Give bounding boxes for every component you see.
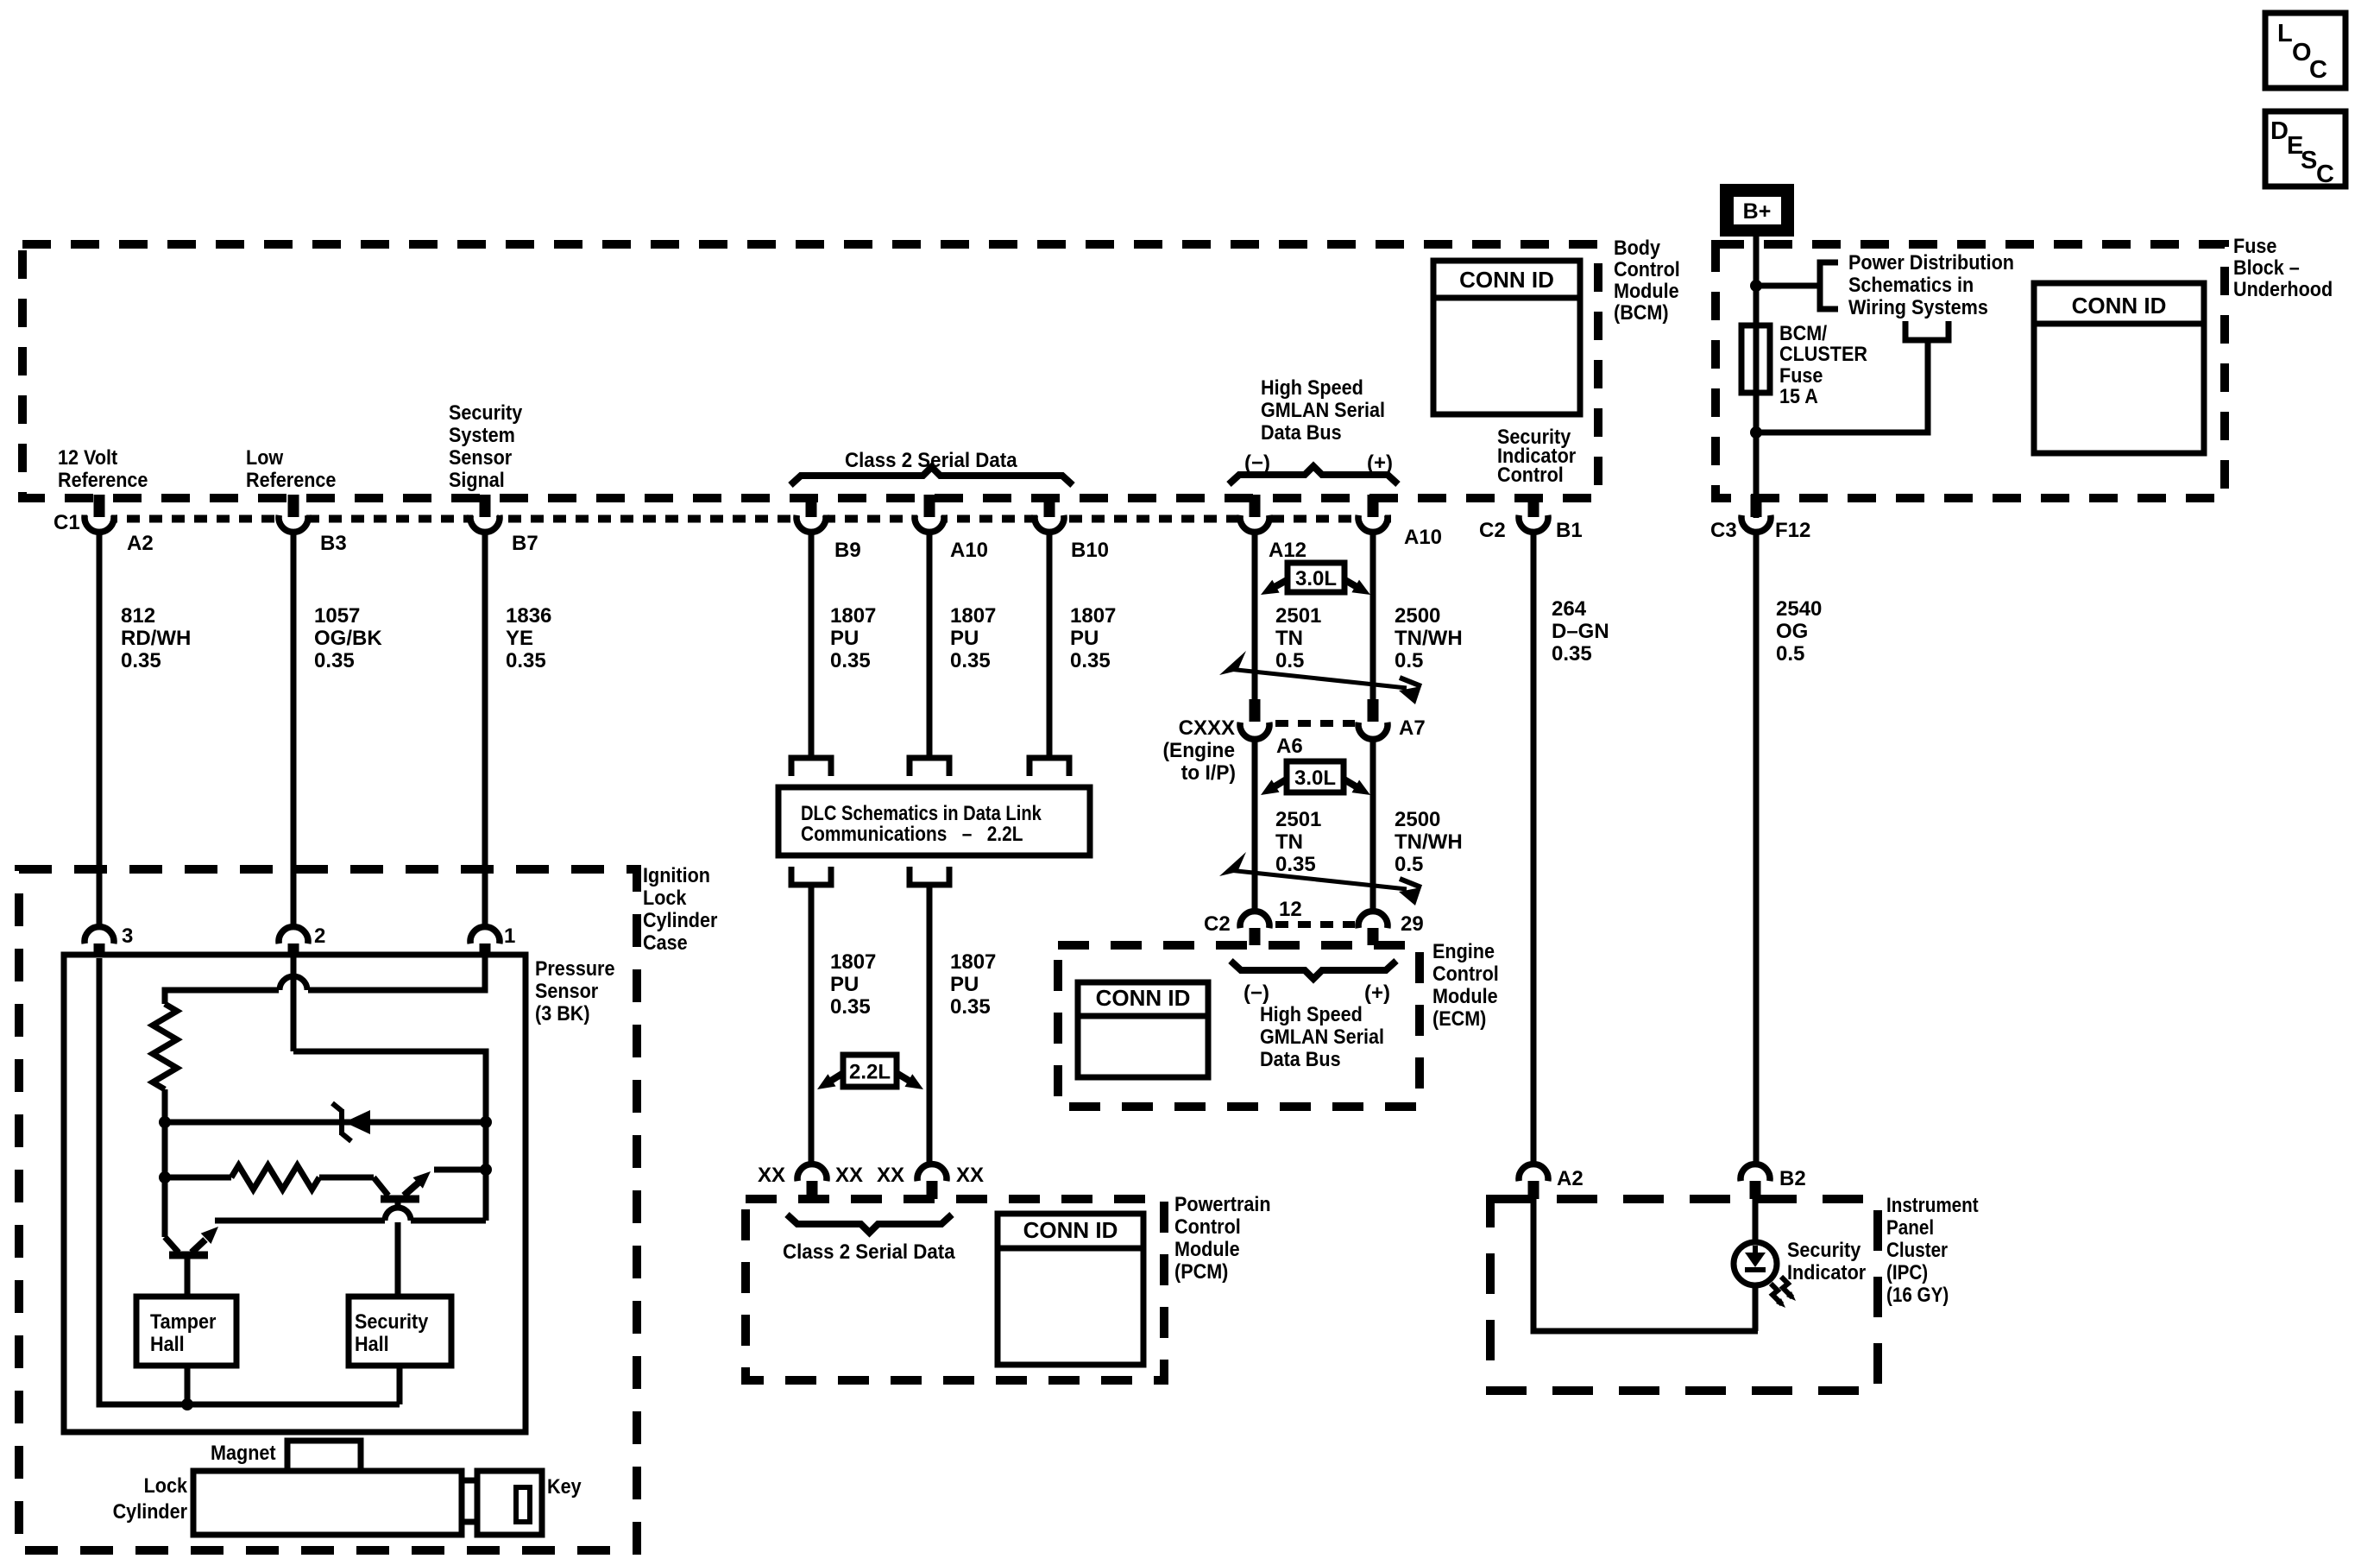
svg-text:Control: Control — [1614, 257, 1680, 281]
svg-text:1057: 1057 — [314, 604, 360, 628]
svg-text:C3: C3 — [1710, 519, 1737, 542]
svg-text:0.35: 0.35 — [830, 995, 871, 1019]
svg-text:(−): (−) — [1244, 451, 1270, 475]
svg-text:Powertrain: Powertrain — [1174, 1192, 1271, 1215]
svg-text:3.0L: 3.0L — [1294, 767, 1336, 790]
svg-text:OG: OG — [1776, 620, 1808, 643]
svg-text:D–GN: D–GN — [1552, 620, 1609, 643]
svg-text:Class 2 Serial Data: Class 2 Serial Data — [845, 448, 1018, 471]
svg-text:YE: YE — [506, 627, 533, 650]
svg-text:A7: A7 — [1399, 716, 1426, 740]
svg-text:Control: Control — [1497, 463, 1564, 486]
svg-text:Block –: Block – — [2233, 256, 2300, 279]
svg-text:Class 2 Serial Data: Class 2 Serial Data — [783, 1240, 956, 1263]
svg-text:Ignition: Ignition — [643, 863, 710, 887]
svg-text:RD/WH: RD/WH — [121, 627, 191, 650]
svg-text:812: 812 — [121, 604, 155, 628]
svg-text:B10: B10 — [1071, 539, 1109, 562]
svg-text:GMLAN Serial: GMLAN Serial — [1261, 398, 1385, 421]
svg-text:(3 BK): (3 BK) — [535, 1001, 590, 1025]
svg-text:C: C — [2316, 161, 2334, 188]
svg-text:Case: Case — [643, 931, 688, 954]
svg-text:Cylinder: Cylinder — [643, 908, 718, 931]
svg-text:Engine: Engine — [1432, 939, 1495, 962]
svg-text:Reference: Reference — [58, 468, 148, 491]
svg-text:Communications – 2.2L: Communications – 2.2L — [801, 823, 1023, 846]
svg-text:A12: A12 — [1269, 539, 1306, 562]
svg-text:GMLAN Serial: GMLAN Serial — [1260, 1025, 1384, 1048]
svg-text:DLC Schematics in Data Link: DLC Schematics in Data Link — [801, 801, 1042, 824]
svg-text:(ECM): (ECM) — [1432, 1007, 1486, 1030]
svg-text:Module: Module — [1174, 1237, 1240, 1260]
svg-text:B7: B7 — [512, 532, 538, 555]
svg-text:System: System — [449, 423, 515, 446]
svg-text:Data Bus: Data Bus — [1261, 420, 1342, 444]
svg-text:2540: 2540 — [1776, 597, 1822, 621]
svg-text:2500: 2500 — [1395, 808, 1440, 831]
svg-text:C2: C2 — [1479, 519, 1506, 542]
svg-text:Security: Security — [449, 401, 523, 424]
svg-text:1836: 1836 — [506, 604, 551, 628]
svg-text:0.5: 0.5 — [1776, 642, 1804, 666]
svg-text:CONN ID: CONN ID — [1459, 267, 1554, 293]
svg-text:CLUSTER: CLUSTER — [1779, 342, 1867, 365]
svg-text:Control: Control — [1432, 962, 1499, 985]
svg-text:15 A: 15 A — [1779, 384, 1818, 407]
svg-text:C: C — [2309, 56, 2327, 84]
svg-text:Security: Security — [355, 1309, 429, 1333]
svg-text:1807: 1807 — [830, 950, 876, 974]
svg-text:0.35: 0.35 — [830, 649, 871, 672]
svg-text:0.35: 0.35 — [314, 649, 355, 672]
svg-text:3.0L: 3.0L — [1295, 567, 1337, 590]
svg-text:0.5: 0.5 — [1395, 853, 1423, 876]
svg-text:B1: B1 — [1556, 519, 1583, 542]
svg-text:0.35: 0.35 — [506, 649, 546, 672]
svg-text:Hall: Hall — [355, 1332, 389, 1355]
svg-text:2: 2 — [314, 924, 325, 948]
svg-text:Underhood: Underhood — [2233, 277, 2333, 300]
svg-text:0.35: 0.35 — [950, 995, 991, 1019]
svg-text:1807: 1807 — [950, 950, 996, 974]
svg-text:PU: PU — [830, 627, 859, 650]
svg-text:PU: PU — [1070, 627, 1099, 650]
svg-text:0.35: 0.35 — [950, 649, 991, 672]
svg-text:Hall: Hall — [150, 1332, 185, 1355]
svg-text:to I/P): to I/P) — [1181, 760, 1236, 784]
svg-text:(IPC): (IPC) — [1886, 1261, 1928, 1284]
svg-text:PU: PU — [950, 627, 979, 650]
svg-text:Lock: Lock — [643, 886, 687, 909]
svg-text:B3: B3 — [320, 532, 347, 555]
svg-text:Tamper: Tamper — [150, 1309, 217, 1333]
svg-text:1807: 1807 — [830, 604, 876, 628]
svg-text:CXXX: CXXX — [1179, 716, 1235, 740]
svg-text:Sensor: Sensor — [449, 445, 512, 469]
svg-text:(+): (+) — [1364, 981, 1390, 1005]
svg-text:Power Distribution: Power Distribution — [1848, 250, 2014, 274]
svg-text:Data Bus: Data Bus — [1260, 1047, 1341, 1070]
svg-text:Reference: Reference — [246, 468, 336, 491]
svg-text:Signal: Signal — [449, 468, 505, 491]
svg-text:B+: B+ — [1743, 199, 1772, 224]
svg-text:CONN ID: CONN ID — [2072, 293, 2167, 319]
svg-text:3: 3 — [122, 924, 133, 948]
svg-text:A10: A10 — [950, 539, 988, 562]
svg-text:High Speed: High Speed — [1260, 1002, 1363, 1025]
svg-text:B9: B9 — [834, 539, 861, 562]
svg-text:0.35: 0.35 — [1275, 853, 1316, 876]
svg-text:A10: A10 — [1404, 526, 1442, 549]
svg-text:TN/WH: TN/WH — [1395, 627, 1463, 650]
svg-text:Low: Low — [246, 445, 283, 469]
svg-text:0.5: 0.5 — [1275, 649, 1304, 672]
svg-text:Panel: Panel — [1886, 1216, 1934, 1240]
svg-text:29: 29 — [1401, 912, 1424, 936]
svg-text:S: S — [2301, 147, 2317, 174]
svg-text:Security: Security — [1787, 1238, 1861, 1261]
svg-text:XX: XX — [877, 1164, 904, 1187]
svg-text:Module: Module — [1614, 279, 1679, 302]
svg-text:A2: A2 — [1557, 1167, 1584, 1190]
svg-text:PU: PU — [830, 973, 859, 996]
svg-text:B2: B2 — [1779, 1167, 1806, 1190]
svg-text:XX: XX — [758, 1164, 785, 1187]
svg-text:Module: Module — [1432, 984, 1498, 1007]
svg-text:12: 12 — [1279, 898, 1302, 921]
svg-text:A6: A6 — [1276, 735, 1303, 758]
svg-text:Control: Control — [1174, 1215, 1241, 1238]
svg-text:Magnet: Magnet — [211, 1441, 276, 1464]
svg-text:264: 264 — [1552, 597, 1587, 621]
svg-text:0.35: 0.35 — [121, 649, 161, 672]
svg-text:XX: XX — [835, 1164, 863, 1187]
svg-text:TN: TN — [1275, 830, 1303, 854]
svg-text:XX: XX — [956, 1164, 984, 1187]
svg-text:Sensor: Sensor — [535, 979, 598, 1002]
svg-text:0.35: 0.35 — [1552, 642, 1592, 666]
svg-text:Instrument: Instrument — [1886, 1194, 1979, 1217]
svg-text:TN: TN — [1275, 627, 1303, 650]
svg-text:OG/BK: OG/BK — [314, 627, 382, 650]
svg-text:CONN ID: CONN ID — [1023, 1217, 1118, 1243]
svg-text:C1: C1 — [54, 511, 80, 534]
svg-text:Fuse: Fuse — [2233, 234, 2276, 257]
svg-text:TN/WH: TN/WH — [1395, 830, 1463, 854]
svg-text:2501: 2501 — [1275, 604, 1321, 628]
svg-text:(16 GY): (16 GY) — [1886, 1284, 1949, 1307]
svg-text:(Engine: (Engine — [1162, 738, 1235, 761]
svg-text:High Speed: High Speed — [1261, 375, 1363, 399]
svg-text:Pressure: Pressure — [535, 956, 614, 980]
svg-text:L: L — [2277, 20, 2293, 47]
svg-text:2.2L: 2.2L — [849, 1061, 891, 1084]
svg-text:D: D — [2270, 117, 2289, 145]
svg-text:Key: Key — [547, 1474, 582, 1498]
svg-text:Indicator: Indicator — [1787, 1260, 1866, 1284]
svg-text:12 Volt: 12 Volt — [58, 445, 118, 469]
svg-text:(BCM): (BCM) — [1614, 300, 1669, 324]
svg-text:0.35: 0.35 — [1070, 649, 1111, 672]
svg-text:(PCM): (PCM) — [1174, 1259, 1228, 1283]
svg-text:PU: PU — [950, 973, 979, 996]
svg-text:C2: C2 — [1204, 912, 1231, 936]
svg-text:0.5: 0.5 — [1395, 649, 1423, 672]
svg-text:Cluster: Cluster — [1886, 1239, 1948, 1262]
svg-text:2501: 2501 — [1275, 808, 1321, 831]
svg-text:Schematics in: Schematics in — [1848, 273, 1974, 296]
svg-text:F12: F12 — [1775, 519, 1810, 542]
svg-text:2500: 2500 — [1395, 604, 1440, 628]
svg-text:Lock: Lock — [144, 1473, 188, 1497]
svg-text:Wiring Systems: Wiring Systems — [1848, 295, 1988, 319]
svg-text:A2: A2 — [127, 532, 154, 555]
svg-text:CONN ID: CONN ID — [1096, 985, 1191, 1011]
svg-text:Cylinder: Cylinder — [113, 1499, 188, 1523]
svg-text:(+): (+) — [1367, 451, 1393, 475]
svg-text:Body: Body — [1614, 236, 1660, 259]
svg-text:1: 1 — [504, 924, 515, 948]
svg-text:1807: 1807 — [1070, 604, 1116, 628]
svg-text:1807: 1807 — [950, 604, 996, 628]
